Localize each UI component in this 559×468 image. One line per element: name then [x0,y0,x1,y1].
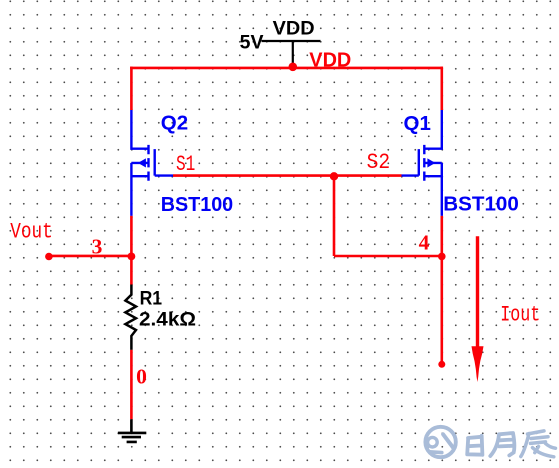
wire Q2 source to node 3 [130,216,133,285]
junction gate rail [330,172,338,180]
svg-text:3: 3 [92,235,103,259]
wire R1 to ground [130,350,133,419]
junction VDD rail [289,63,298,72]
wire Q1 drain stem [440,67,443,110]
wire gate rail S1 to S2 [173,174,402,177]
wire Q2 drain stem [130,67,133,110]
junction node 4 [438,253,446,261]
svg-text:Q1: Q1 [404,112,431,135]
ground [118,419,146,442]
svg-text:2.4kΩ: 2.4kΩ [139,309,196,331]
svg-text:BST100: BST100 [443,193,519,216]
svg-text:5V: 5V [240,32,264,54]
wire VDD top rail [130,67,443,70]
svg-text:VDD: VDD [309,50,351,72]
wire junction down [333,176,336,256]
svg-text:Iout: Iout [500,301,540,327]
power symbol VDD 5V [262,41,321,67]
svg-text:Q2: Q2 [161,112,188,135]
transistor Q2 [130,110,173,216]
watermark logo [425,427,455,457]
svg-text:4: 4 [419,230,430,254]
svg-text:0: 0 [136,365,147,389]
wire to node 4 [334,255,442,258]
junction node 3 [127,253,135,261]
transistor Q1 [402,110,444,216]
terminal dot Vout [45,253,53,261]
wire Q1 source down [440,216,443,364]
current arrow Iout [472,236,484,382]
svg-text:S1: S1 [176,151,195,177]
terminal dot node 4 end [438,361,445,368]
svg-text:S2: S2 [367,149,391,175]
svg-text:BST100: BST100 [161,193,234,216]
resistor R1 [125,285,136,350]
svg-text:Vout: Vout [10,219,53,245]
wire node 3 to Vout terminal [49,255,131,258]
svg-text:VDD: VDD [273,18,315,40]
watermark text ri yue chen [467,431,555,457]
svg-text:R1: R1 [140,287,163,309]
